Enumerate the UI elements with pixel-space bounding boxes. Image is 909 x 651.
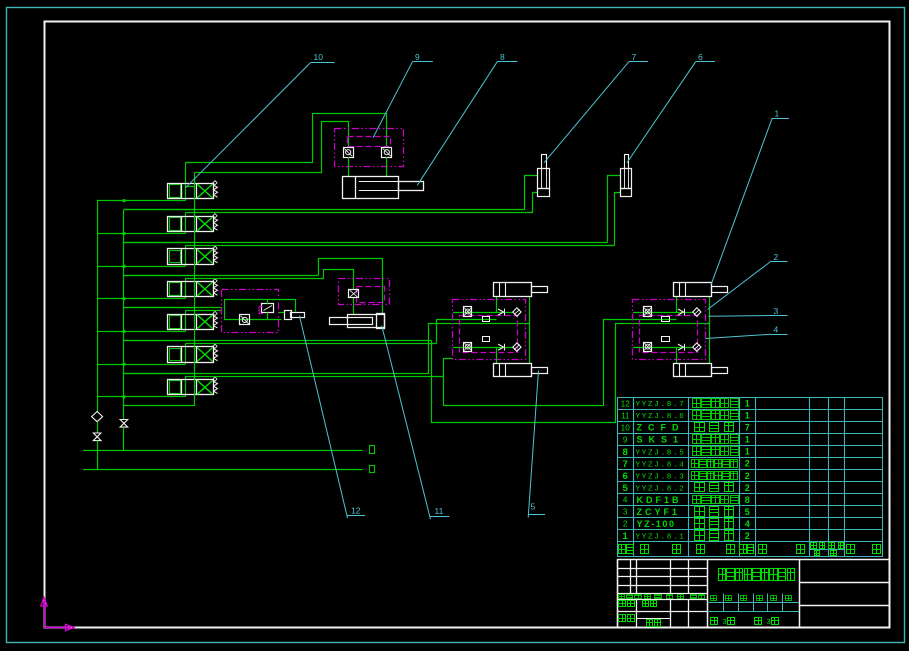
svg-text:11: 11 <box>435 506 444 516</box>
svg-text:1: 1 <box>745 411 750 421</box>
svg-text:4: 4 <box>774 325 779 335</box>
svg-text:SKS1: SKS1 <box>637 435 685 445</box>
svg-text:YYZJ.8.2: YYZJ.8.2 <box>636 485 686 493</box>
svg-text:3: 3 <box>623 508 628 517</box>
svg-text:6: 6 <box>623 471 628 482</box>
svg-text:7: 7 <box>623 459 628 470</box>
svg-text:10: 10 <box>621 424 631 433</box>
svg-text:2: 2 <box>745 483 750 493</box>
svg-text:1: 1 <box>745 399 750 409</box>
svg-text:4: 4 <box>623 496 628 505</box>
svg-text:8: 8 <box>745 495 750 505</box>
svg-text:4: 4 <box>745 519 750 529</box>
svg-text:3: 3 <box>767 617 771 626</box>
svg-text:YZ-100: YZ-100 <box>637 519 676 529</box>
svg-text:YYZJ.8.4: YYZJ.8.4 <box>636 461 686 469</box>
svg-text:9: 9 <box>415 52 420 62</box>
svg-text:12: 12 <box>351 506 361 516</box>
svg-text:5: 5 <box>623 483 629 494</box>
svg-text:KDF1B: KDF1B <box>637 495 682 505</box>
svg-text:1: 1 <box>775 109 780 119</box>
svg-text:5: 5 <box>531 502 536 512</box>
svg-text:YYZJ.8.6: YYZJ.8.6 <box>636 413 686 421</box>
svg-text:YYZJ.8.3: YYZJ.8.3 <box>636 473 686 481</box>
svg-text:2: 2 <box>774 252 779 262</box>
svg-text:3: 3 <box>723 617 727 626</box>
svg-text:2: 2 <box>745 471 750 481</box>
svg-text:3: 3 <box>774 306 779 316</box>
svg-text:7: 7 <box>632 52 637 62</box>
svg-text:1: 1 <box>745 447 750 457</box>
svg-text:6: 6 <box>698 52 703 62</box>
svg-text:1: 1 <box>745 435 750 445</box>
svg-text:7: 7 <box>745 423 750 433</box>
svg-text:10: 10 <box>314 52 324 62</box>
svg-text:YYZJ.8.1: YYZJ.8.1 <box>636 534 686 542</box>
svg-text:2: 2 <box>745 531 750 541</box>
svg-text:YYZJ.8.5: YYZJ.8.5 <box>636 449 686 457</box>
svg-text:8: 8 <box>623 447 628 458</box>
svg-text:1: 1 <box>623 531 629 542</box>
svg-text:8: 8 <box>500 52 505 62</box>
svg-text:2: 2 <box>623 520 628 529</box>
svg-text:ZCFD: ZCFD <box>637 423 685 433</box>
svg-text:5: 5 <box>745 507 750 517</box>
svg-text:2: 2 <box>745 459 750 469</box>
svg-text:ZCYF1: ZCYF1 <box>637 507 681 517</box>
svg-text:YYZJ.8.7: YYZJ.8.7 <box>636 401 686 409</box>
svg-text:12: 12 <box>621 399 631 408</box>
svg-text:11: 11 <box>621 411 630 420</box>
svg-text:9: 9 <box>623 436 628 445</box>
